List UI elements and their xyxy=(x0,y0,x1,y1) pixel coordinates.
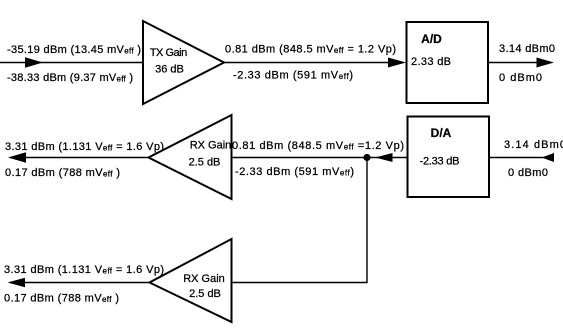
svg-text:3.14 dBm0: 3.14 dBm0 xyxy=(504,139,563,151)
node: junction on D/A output net xyxy=(363,154,370,161)
amplifier U5 RX Gain 2.5 dB (bottom) xyxy=(150,239,232,322)
wire: RX amp (mid) output to left xyxy=(8,152,148,162)
svg-text:0.81 dBm (848.5 mVeff = 1.2 Vp: 0.81 dBm (848.5 mVeff = 1.2 Vp) xyxy=(225,44,396,56)
svg-text:RX Gain: RX Gain xyxy=(183,273,225,285)
wire: junction down to RX amp (bottom) vertical segment xyxy=(366,158,368,283)
svg-text:3.31 dBm (1.131 Veff = 1.6 Vp): 3.31 dBm (1.131 Veff = 1.6 Vp) xyxy=(4,264,164,276)
svg-text:3.14 dBm0: 3.14 dBm0 xyxy=(499,43,555,55)
svg-text:3.31 dBm (1.131 Veff = 1.6 Vp): 3.31 dBm (1.131 Veff = 1.6 Vp) xyxy=(5,141,164,153)
amplifier U1 TX Gain 36 dB xyxy=(143,21,224,104)
svg-text:A/D: A/D xyxy=(421,32,442,46)
wire: A/D output xyxy=(488,58,554,68)
wire: horizontal segment into RX amp (bottom) xyxy=(232,282,368,284)
svg-text:0 dBm0: 0 dBm0 xyxy=(499,72,542,84)
svg-text:36 dB: 36 dB xyxy=(155,64,184,76)
wire: D/A input from right xyxy=(489,153,554,162)
svg-text:0.17 dBm (788 mVeff ): 0.17 dBm (788 mVeff ) xyxy=(5,167,120,179)
wire: D/A output to RX amp (mid) xyxy=(232,153,408,162)
svg-text:-35.19 dBm (13.45 mVeff ): -35.19 dBm (13.45 mVeff ) xyxy=(7,44,141,56)
svg-text:0.17 dBm (788 mVeff ): 0.17 dBm (788 mVeff ) xyxy=(4,293,119,305)
svg-text:0 dBm0: 0 dBm0 xyxy=(508,167,548,179)
block U2 A/D converter xyxy=(407,22,489,103)
wire: input to TX amp xyxy=(0,57,143,68)
svg-text:TX Gain: TX Gain xyxy=(150,47,188,59)
svg-text:2.5 dB: 2.5 dB xyxy=(189,157,221,169)
svg-text:RX Gain: RX Gain xyxy=(190,140,232,152)
svg-text:-2.33 dB: -2.33 dB xyxy=(420,156,460,168)
amplifier U3 RX Gain 2.5 dB (middle) xyxy=(149,115,232,199)
block U4 D/A converter xyxy=(408,117,490,198)
svg-text:-38.33 dBm (9.37 mVeff ): -38.33 dBm (9.37 mVeff ) xyxy=(7,72,133,84)
wire: TX amp output to A/D xyxy=(224,58,406,68)
svg-text:D/A: D/A xyxy=(431,126,452,140)
svg-text:-2.33 dBm (591 mVeff): -2.33 dBm (591 mVeff) xyxy=(235,166,354,178)
svg-text:2.33 dB: 2.33 dB xyxy=(411,56,451,68)
svg-text:-2.33 dBm (591 mVeff): -2.33 dBm (591 mVeff) xyxy=(233,70,353,82)
svg-text:2.5 dB: 2.5 dB xyxy=(189,288,221,300)
svg-text:0.81 dBm (848.5 mVeff =1.2 Vp): 0.81 dBm (848.5 mVeff =1.2 Vp) xyxy=(232,140,404,152)
wire: RX amp (bottom) output to left xyxy=(8,278,150,288)
